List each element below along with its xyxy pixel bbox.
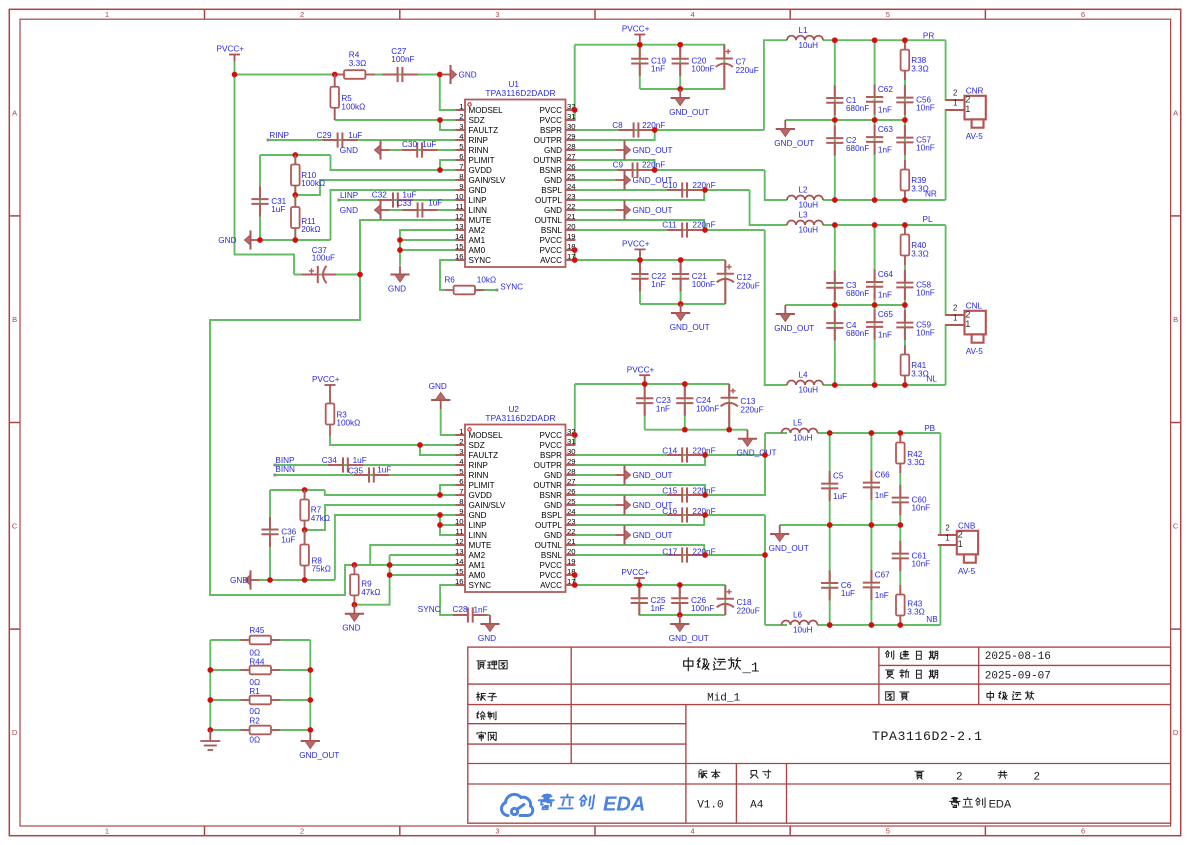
wire C25 column — [638, 585, 640, 615]
power flag — [634, 35, 645, 42]
wire C18 column — [724, 585, 726, 615]
svg-text:2: 2 — [953, 303, 957, 312]
junction filter R-channel — [872, 197, 878, 203]
capacitor C17 — [667, 547, 702, 562]
svg-text:1nF: 1nF — [878, 105, 892, 114]
wire GND to U2 pin1 MODSEL — [441, 409, 456, 435]
svg-text:13: 13 — [455, 222, 464, 231]
svg-text:R44: R44 — [249, 658, 264, 667]
svg-text:GND_OUT: GND_OUT — [774, 139, 814, 148]
svg-text:23: 23 — [567, 517, 576, 526]
svg-text:26: 26 — [567, 162, 576, 171]
junction C17/OUTNL U2 — [702, 552, 708, 558]
wire OUTPR to C8 node — [576, 130, 655, 140]
connector CNB AV-5 — [938, 521, 978, 576]
svg-text:C65: C65 — [878, 310, 893, 319]
svg-text:4: 4 — [459, 457, 464, 466]
svg-text:19: 19 — [567, 232, 576, 241]
junction C23 top — [642, 381, 648, 387]
junction C36 bottom — [267, 577, 273, 583]
wire flag stem — [639, 42, 641, 45]
svg-text:MODSEL: MODSEL — [469, 431, 504, 440]
wire C21 column — [680, 260, 682, 304]
wire GND rail U1 input — [260, 239, 331, 241]
svg-text:BSNR: BSNR — [540, 166, 563, 175]
svg-text:MUTE: MUTE — [469, 541, 493, 550]
resistor R7 — [300, 490, 309, 530]
capacitor C5 — [821, 471, 838, 501]
svg-text:OUTPL: OUTPL — [535, 521, 562, 530]
wire R44 right — [271, 669, 311, 671]
svg-text:BSPL: BSPL — [541, 511, 562, 520]
capacitor C37 polarized 100uF — [302, 266, 336, 283]
svg-text:9: 9 — [459, 182, 463, 191]
wire PVCC top rail — [575, 44, 726, 46]
svg-text:EDA: EDA — [989, 798, 1012, 810]
svg-text:7: 7 — [459, 162, 463, 171]
wire C26 column — [679, 585, 681, 615]
svg-text:PVCC: PVCC — [540, 116, 563, 125]
resistor R5 — [330, 75, 339, 121]
wire OUTPR node up to L1 — [764, 40, 787, 130]
wire GVDD to U1 pin7 — [331, 155, 456, 170]
svg-text:8: 8 — [459, 497, 463, 506]
logo JLCEDA cloud icon — [501, 794, 532, 815]
wire AVCC rail — [575, 250, 726, 260]
wire C36 top rail — [270, 489, 325, 491]
svg-text:0Ω: 0Ω — [249, 707, 260, 716]
svg-text:PVCC+: PVCC+ — [627, 365, 655, 374]
label 共 — [998, 771, 1007, 778]
ground GND_OUT pin28 — [616, 140, 631, 159]
svg-text:CNL: CNL — [966, 301, 983, 310]
label 审阅 — [477, 732, 486, 741]
svg-text:24: 24 — [567, 507, 576, 516]
svg-text:GAIN/SLV: GAIN/SLV — [469, 176, 506, 185]
svg-text:10uH: 10uH — [799, 201, 819, 210]
wire PL to CNL pin2 — [946, 225, 957, 315]
junction GVDD/PLIMIT U2 — [437, 492, 443, 498]
svg-text:10nF: 10nF — [912, 560, 931, 569]
svg-text:AV-5: AV-5 — [966, 347, 984, 356]
svg-text:C33: C33 — [397, 199, 412, 208]
svg-text:20: 20 — [567, 222, 576, 231]
junction filter PB — [869, 522, 875, 528]
svg-text:LINN: LINN — [469, 531, 488, 540]
svg-text:_1: _1 — [742, 661, 760, 677]
ground GND_OUT pin22 — [616, 200, 631, 219]
wire to U1 pin3 FAULTZ — [440, 120, 456, 130]
resistor R40 — [901, 225, 910, 265]
svg-text:5: 5 — [459, 142, 463, 151]
svg-text:1nF: 1nF — [651, 65, 665, 74]
svg-text:25: 25 — [567, 172, 576, 181]
svg-text:2: 2 — [956, 772, 963, 784]
wire to pin32 — [574, 109, 577, 111]
wire pin28 GND_OUT — [576, 149, 616, 151]
wire OUTPL to C10 node — [576, 190, 705, 200]
ground GND_OUT R-channel mid — [776, 120, 795, 137]
svg-text:BSNR: BSNR — [540, 491, 563, 500]
svg-text:30: 30 — [567, 447, 576, 456]
svg-text:29: 29 — [567, 132, 576, 141]
svg-text:23: 23 — [567, 192, 576, 201]
svg-text:AV-5: AV-5 — [966, 132, 984, 141]
connector CNR AV-5 — [946, 86, 986, 141]
junction pin9 GND U2 — [437, 512, 443, 518]
wire R5 to U1 pin2 SDZ — [335, 119, 456, 121]
title 中级运放_1 — [684, 658, 693, 671]
capacitor C4 — [826, 311, 843, 341]
svg-text:B: B — [1173, 315, 1178, 324]
svg-text:3: 3 — [495, 827, 499, 836]
svg-text:4: 4 — [691, 10, 695, 19]
junction filter L-channel — [872, 382, 878, 388]
junction C9/OUTNR — [652, 167, 658, 173]
junction filter L-channel — [902, 222, 908, 228]
wire OUTNR node down to L2 — [765, 170, 787, 200]
wire C19/C20/C7 bottom rail — [640, 88, 725, 90]
node LINP — [337, 199, 340, 202]
junction right rail — [307, 667, 313, 673]
capacitor C26 — [671, 586, 688, 616]
svg-text:GND: GND — [342, 624, 360, 633]
svg-text:C10: C10 — [662, 181, 677, 190]
svg-text:13: 13 — [455, 547, 464, 556]
ground GND_OUT below C20 — [671, 89, 690, 106]
svg-text:31: 31 — [567, 112, 576, 121]
svg-text:BINN: BINN — [275, 465, 295, 474]
svg-text:AM0: AM0 — [469, 246, 486, 255]
svg-text:PVCC: PVCC — [540, 441, 563, 450]
svg-text:GND_OUT: GND_OUT — [633, 146, 673, 155]
wire NR rail — [823, 199, 946, 201]
svg-text:10uH: 10uH — [799, 386, 819, 395]
capacitor C19 — [631, 46, 648, 76]
wire MUTE vertical at C37 — [359, 220, 361, 275]
svg-text:2025-08-16: 2025-08-16 — [985, 651, 1051, 663]
svg-text:GAIN/SLV: GAIN/SLV — [469, 501, 506, 510]
resistor R1 — [240, 696, 280, 705]
wire PB rail — [818, 432, 941, 434]
svg-text:2025-09-07: 2025-09-07 — [985, 670, 1051, 682]
svg-text:D: D — [12, 728, 18, 737]
wire GND rail U2 input — [260, 579, 335, 581]
connector CNL AV-5 — [946, 301, 986, 356]
junction filter R-channel — [832, 117, 838, 123]
svg-text:10nF: 10nF — [916, 289, 935, 298]
ground GND flag input rail — [245, 230, 260, 249]
resistor R42 — [896, 433, 905, 473]
svg-text:A: A — [12, 108, 17, 117]
junction left rail — [207, 667, 213, 673]
svg-text:1uF: 1uF — [402, 190, 416, 199]
svg-text:PVCC+: PVCC+ — [621, 568, 649, 577]
svg-text:1nF: 1nF — [875, 491, 889, 500]
wire C7 column — [723, 45, 725, 89]
svg-text:3.3Ω: 3.3Ω — [349, 59, 367, 68]
svg-text:47kΩ: 47kΩ — [361, 588, 380, 597]
capacitor C34 — [328, 457, 363, 472]
wire PR rail — [823, 39, 946, 41]
svg-text:2: 2 — [958, 529, 963, 539]
wire R5 column — [334, 75, 336, 121]
svg-text:28: 28 — [567, 467, 576, 476]
svg-text:6: 6 — [1081, 827, 1085, 836]
wire rail to U1 pins 32/31 — [574, 45, 577, 120]
wire LINP to U1 pin10 — [339, 199, 456, 201]
svg-text:D: D — [1173, 728, 1179, 737]
wire PVCC+ flag stem — [639, 253, 641, 260]
svg-text:21: 21 — [567, 212, 576, 221]
ground GND_OUT below C21 — [671, 304, 690, 321]
svg-text:31: 31 — [567, 437, 576, 446]
wire C5/C6 column — [829, 433, 831, 625]
svg-text:GND_OUT: GND_OUT — [633, 531, 673, 540]
junction C10/OUTPL — [702, 187, 708, 193]
svg-text:10: 10 — [455, 517, 464, 526]
svg-text:C11: C11 — [662, 220, 677, 229]
svg-text:1: 1 — [965, 104, 970, 114]
svg-text:220uF: 220uF — [737, 606, 760, 615]
resistor R3 — [326, 392, 335, 436]
wire NL to CNL pin1 — [946, 325, 957, 385]
wire U2 MUTE to AM net — [370, 545, 455, 565]
capacitor C62 — [866, 84, 883, 114]
svg-text:1: 1 — [965, 319, 970, 329]
svg-text:SDZ: SDZ — [469, 441, 485, 450]
resistor R9 — [350, 565, 359, 605]
svg-text:RINP: RINP — [469, 461, 488, 470]
svg-text:R1: R1 — [249, 687, 260, 696]
svg-text:GND: GND — [429, 382, 447, 391]
junction C21 bottom — [678, 301, 684, 307]
svg-text:100nF: 100nF — [691, 604, 714, 613]
svg-text:10uH: 10uH — [793, 434, 813, 443]
capacitor C18 polarized — [717, 585, 734, 615]
junction filter R-channel — [872, 117, 878, 123]
svg-text:0Ω: 0Ω — [249, 678, 260, 687]
ground GND_OUT pin25 — [616, 170, 631, 189]
capacitor C2 — [826, 126, 843, 156]
svg-text:C17: C17 — [662, 547, 677, 556]
junction filter L-channel — [872, 302, 878, 308]
svg-text:GND: GND — [459, 71, 477, 80]
svg-text:1: 1 — [459, 102, 463, 111]
wire BSPL/C10 row — [576, 189, 750, 191]
wire U2 pin22 GND_OUT — [576, 534, 616, 536]
svg-text:15: 15 — [455, 242, 464, 251]
ground GND flag at C27 — [442, 65, 457, 84]
wire GND/C33 to U1 pin11 LINN — [390, 209, 456, 211]
junction filter R-channel — [872, 37, 878, 43]
capacitor C14 — [667, 447, 702, 462]
capacitor C35 — [354, 467, 389, 482]
resistor R4 — [335, 70, 375, 79]
ground GND_OUT U2 top block — [738, 430, 757, 447]
wire C36 column — [269, 490, 271, 580]
svg-text:6: 6 — [459, 477, 463, 486]
svg-text:1nF: 1nF — [474, 606, 488, 615]
power flag — [635, 249, 646, 256]
svg-text:AM0: AM0 — [469, 571, 486, 580]
wire R45 left — [210, 639, 250, 641]
svg-text:Mid_1: Mid_1 — [707, 692, 740, 704]
junction filter PB — [827, 522, 833, 528]
svg-text:GND: GND — [478, 634, 496, 643]
junction pin32 — [572, 107, 578, 113]
resistor R6 — [444, 286, 484, 295]
svg-text:11: 11 — [456, 527, 464, 536]
svg-text:RINN: RINN — [469, 146, 489, 155]
ground GND_OUT U2 pin28 — [616, 465, 631, 484]
svg-text:OUTNR: OUTNR — [533, 481, 562, 490]
wire C37 row — [294, 274, 360, 276]
ground GND_OUT U2 pin25 — [616, 495, 631, 514]
junction R7 top — [302, 487, 308, 493]
svg-text:27: 27 — [567, 477, 576, 486]
svg-text:PB: PB — [924, 424, 935, 433]
junction pin10 LINP U2 — [437, 522, 443, 528]
capacitor C66 — [863, 470, 880, 500]
svg-text:AM2: AM2 — [469, 226, 486, 235]
svg-text:C32: C32 — [372, 190, 387, 199]
power flag — [639, 375, 650, 382]
svg-text:11: 11 — [456, 202, 464, 211]
junction PVCC+/C37 — [232, 72, 238, 78]
svg-text:1: 1 — [958, 539, 963, 549]
svg-text:4: 4 — [459, 132, 464, 141]
junction filter L-channel — [832, 222, 838, 228]
svg-text:A4: A4 — [750, 800, 764, 812]
wire PR to CNR pin2 — [946, 40, 957, 100]
wire PL rail — [823, 224, 946, 226]
ground GND_OUT below C26 — [670, 615, 689, 632]
capacitor C56 — [896, 85, 913, 115]
svg-text:C14: C14 — [662, 446, 677, 455]
svg-text:TPA3116D2DADR: TPA3116D2DADR — [485, 88, 555, 98]
wire C64/C65 column — [874, 225, 876, 385]
label 图页 — [886, 692, 894, 700]
wire C31 column — [259, 155, 261, 240]
text 嘉立创EDA small — [950, 797, 960, 807]
ground GND flag at LINN — [375, 200, 390, 219]
wire BINN to U2 pin5 — [275, 474, 456, 476]
svg-text:9: 9 — [459, 507, 463, 516]
label 原理图 — [477, 661, 486, 669]
junction R8 bottom — [302, 577, 308, 583]
wire GND/C30 to U1 pin5 RINN — [390, 149, 456, 151]
junction filter PB — [827, 430, 833, 436]
svg-text:L2: L2 — [799, 186, 809, 195]
svg-text:14: 14 — [455, 557, 464, 566]
junction C11/OUTNL — [702, 227, 708, 233]
svg-text:PVCC+: PVCC+ — [312, 375, 340, 384]
wire to L6 — [765, 624, 787, 626]
svg-text:BSPR: BSPR — [540, 451, 562, 460]
wire BINP to U2 pin4 — [275, 464, 456, 466]
svg-text:PVCC: PVCC — [540, 571, 563, 580]
svg-text:FAULTZ: FAULTZ — [469, 451, 499, 460]
wire NB rail — [818, 624, 941, 626]
capacitor C23 — [636, 386, 653, 416]
wire C19 column — [639, 45, 641, 89]
svg-text:NB: NB — [926, 615, 938, 624]
capacitor C64 — [866, 269, 883, 299]
svg-text:2: 2 — [459, 112, 463, 121]
svg-text:100nF: 100nF — [391, 55, 414, 64]
svg-text:PLIMIT: PLIMIT — [469, 156, 495, 165]
ground GND flag at AM pins — [390, 266, 409, 283]
wire U2 PVCC top rail — [575, 383, 729, 385]
svg-text:C: C — [1173, 522, 1179, 531]
wire U2 OUTPL to C16 node — [576, 515, 705, 525]
svg-text:100nF: 100nF — [691, 65, 714, 74]
svg-text:SYNC: SYNC — [500, 282, 523, 291]
svg-text:220uF: 220uF — [736, 66, 759, 75]
wire R6 to SYNC label — [475, 289, 497, 291]
wire mid rail GND_OUT L-channel — [785, 304, 905, 306]
svg-text:LINN: LINN — [469, 206, 488, 215]
capacitor C13 polarized — [721, 384, 738, 430]
svg-text:PVCC: PVCC — [540, 431, 563, 440]
svg-text:1nF: 1nF — [875, 591, 889, 600]
wire pin22 GND_OUT — [576, 209, 616, 211]
junction pin18 U2 — [572, 572, 578, 578]
node SYNC — [496, 289, 499, 292]
junction C25 top — [636, 582, 642, 588]
wire R2 right — [271, 729, 311, 731]
wire to U2 pin3 FAULTZ — [420, 445, 456, 455]
svg-text:GND_OUT: GND_OUT — [774, 324, 814, 333]
junction C26 top — [677, 582, 683, 588]
wire pin18 stub link U2 — [574, 574, 577, 576]
capacitor C27 — [383, 67, 418, 82]
wire R42/C60/C61/R43 column — [899, 433, 901, 625]
svg-text:GND: GND — [544, 471, 562, 480]
capacitor C15 — [667, 487, 702, 502]
svg-text:19: 19 — [567, 557, 576, 566]
svg-text:L6: L6 — [793, 611, 803, 620]
svg-text:R45: R45 — [249, 626, 264, 635]
junction filter R-channel — [832, 197, 838, 203]
wire pin18 stub link — [574, 249, 577, 251]
svg-text:16: 16 — [455, 577, 464, 586]
wire U2 pin9 to pin11 LINN — [440, 515, 456, 535]
ground GND_OUT L-channel mid — [776, 305, 795, 322]
inductor L5 — [782, 429, 818, 434]
svg-text:LINP: LINP — [469, 521, 487, 530]
svg-text:L1: L1 — [799, 26, 809, 35]
wire U1 AM1 — [400, 239, 456, 241]
svg-text:20kΩ: 20kΩ — [301, 225, 320, 234]
wire GND to U2 pin9 — [335, 515, 456, 580]
junction pin17 AVCC U2 — [572, 582, 578, 588]
svg-text:PLIMIT: PLIMIT — [469, 481, 495, 490]
wire U2 AVCC rail — [575, 575, 726, 585]
svg-text:14: 14 — [455, 232, 464, 241]
power flag — [634, 578, 645, 585]
svg-text:6: 6 — [459, 152, 463, 161]
resistor R43 — [896, 585, 905, 625]
svg-text:GND_OUT: GND_OUT — [669, 108, 709, 117]
svg-text:GND: GND — [218, 236, 236, 245]
power flag — [229, 55, 240, 62]
wire PVCC+ to C37 — [235, 61, 295, 275]
svg-text:24: 24 — [567, 182, 576, 191]
svg-text:2: 2 — [945, 523, 949, 532]
svg-text:C: C — [12, 522, 18, 531]
